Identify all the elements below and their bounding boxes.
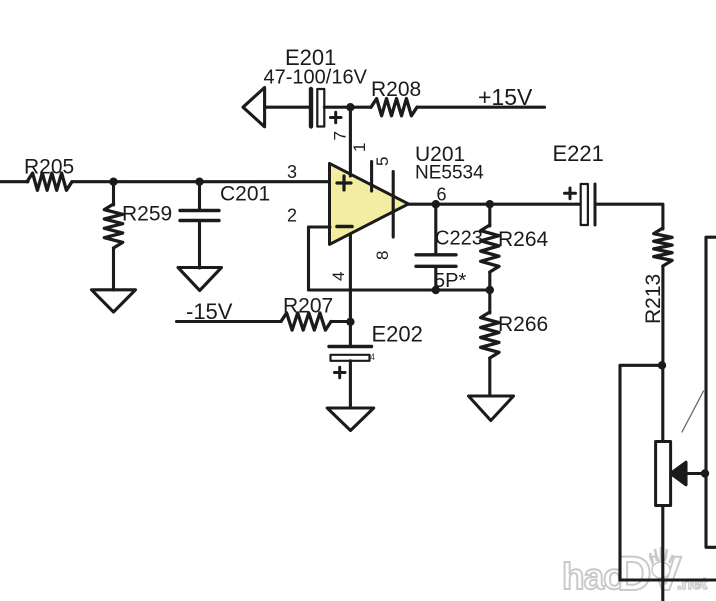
- pin 8 label: [373, 251, 392, 260]
- net +15V: [478, 84, 533, 110]
- pin 1 label: [350, 143, 369, 152]
- node junction R264 top: [486, 200, 494, 208]
- wire potentiometer bottom: [661, 506, 664, 601]
- svg-text:NE5534: NE5534: [415, 163, 484, 184]
- node junction pin7/R208: [346, 103, 354, 111]
- wire right vertical branch: [706, 237, 716, 547]
- svg-text:3: 3: [287, 162, 297, 182]
- svg-text:R213: R213: [642, 274, 665, 324]
- pin 3 label: [287, 162, 297, 182]
- node junction C201: [195, 178, 203, 186]
- svg-text:R264: R264: [498, 228, 549, 251]
- svg-text:hao: hao: [562, 556, 625, 597]
- resistor R205: [24, 156, 74, 191]
- capacitor C223 5P*: [416, 204, 483, 292]
- ground (C201): [178, 268, 222, 291]
- svg-text:C201: C201: [220, 183, 270, 206]
- pin 5 label: [373, 157, 392, 166]
- wire output pin6: [409, 203, 581, 206]
- svg-text:E221: E221: [553, 141, 604, 166]
- resistor R207: [281, 295, 350, 331]
- op-amp U201 NE5534: [330, 143, 485, 244]
- potentiometer body: [656, 442, 671, 506]
- node junction R259: [109, 178, 117, 186]
- wire -15V rail: [177, 320, 282, 323]
- svg-text:.net: .net: [677, 574, 708, 593]
- pin 2 label: [287, 206, 297, 226]
- svg-text:4: 4: [370, 352, 375, 362]
- wire feedback (pin2 to bottom rail): [309, 227, 491, 290]
- node junction R207/pin4: [346, 318, 354, 326]
- capacitor E221: [553, 141, 604, 225]
- net -15V: [186, 299, 233, 324]
- svg-text:47-100/16V: 47-100/16V: [264, 67, 368, 89]
- wire R213 node to potentiometer: [661, 365, 664, 441]
- node junction R213 bottom: [658, 361, 666, 369]
- svg-text:5: 5: [373, 157, 392, 166]
- capacitor E201 47-100/16V: [264, 45, 368, 127]
- pin 2 stub wire: [309, 225, 331, 228]
- pin 4 wire: [349, 234, 352, 346]
- wire E221 to R213: [597, 204, 663, 229]
- svg-text:C223: C223: [435, 228, 483, 250]
- svg-text:4: 4: [329, 272, 348, 281]
- ground (E202): [327, 408, 374, 431]
- wire input to op-amp pin 3: [72, 180, 330, 183]
- pin 7 label: [331, 131, 350, 140]
- capacitor C201: [180, 182, 270, 268]
- node junction C223 top: [432, 200, 440, 208]
- pin 1 stub: [370, 162, 373, 192]
- pin 7 wire: [349, 107, 352, 176]
- pin 5-8 stub line: [392, 172, 395, 238]
- wire left branch to bottom rail: [620, 365, 662, 580]
- svg-text:R259: R259: [122, 203, 172, 226]
- capacitor E202: [329, 322, 423, 409]
- svg-text:R205: R205: [24, 156, 74, 179]
- ground (R266): [469, 396, 514, 421]
- resistor R208: [350, 78, 421, 116]
- svg-text:1: 1: [350, 143, 369, 152]
- node junction C223 bottom: [432, 286, 440, 294]
- svg-text:7: 7: [331, 131, 350, 140]
- resistor R259: [104, 182, 172, 290]
- svg-text:R266: R266: [498, 313, 548, 336]
- input arrow symbol (E201 left): [243, 88, 265, 127]
- resistor R266: [481, 290, 549, 396]
- wire R208 to +15V: [417, 106, 545, 109]
- svg-text:R207: R207: [283, 295, 333, 318]
- ground (R259): [92, 290, 136, 312]
- node junction wiper: [701, 469, 709, 477]
- resistor R264: [481, 204, 549, 290]
- wire E201 to node: [324, 106, 350, 109]
- wire bottom rail: [620, 578, 716, 581]
- watermark haoDV.net: [562, 547, 708, 601]
- resistor R213: [642, 228, 672, 365]
- potentiometer wiper arrow: [671, 462, 706, 484]
- svg-text:R208: R208: [371, 78, 421, 101]
- pin 4 label: [329, 272, 348, 281]
- svg-text:2: 2: [287, 206, 297, 226]
- svg-text:8: 8: [373, 251, 392, 260]
- pin 6 label: [437, 185, 447, 205]
- wire arrow to E201: [265, 106, 309, 109]
- annotation diagonal line: [682, 391, 704, 432]
- node junction R264/R266: [486, 286, 494, 294]
- svg-text:+15V: +15V: [478, 84, 533, 110]
- wire input left: [0, 180, 28, 183]
- svg-text:E202: E202: [372, 322, 423, 347]
